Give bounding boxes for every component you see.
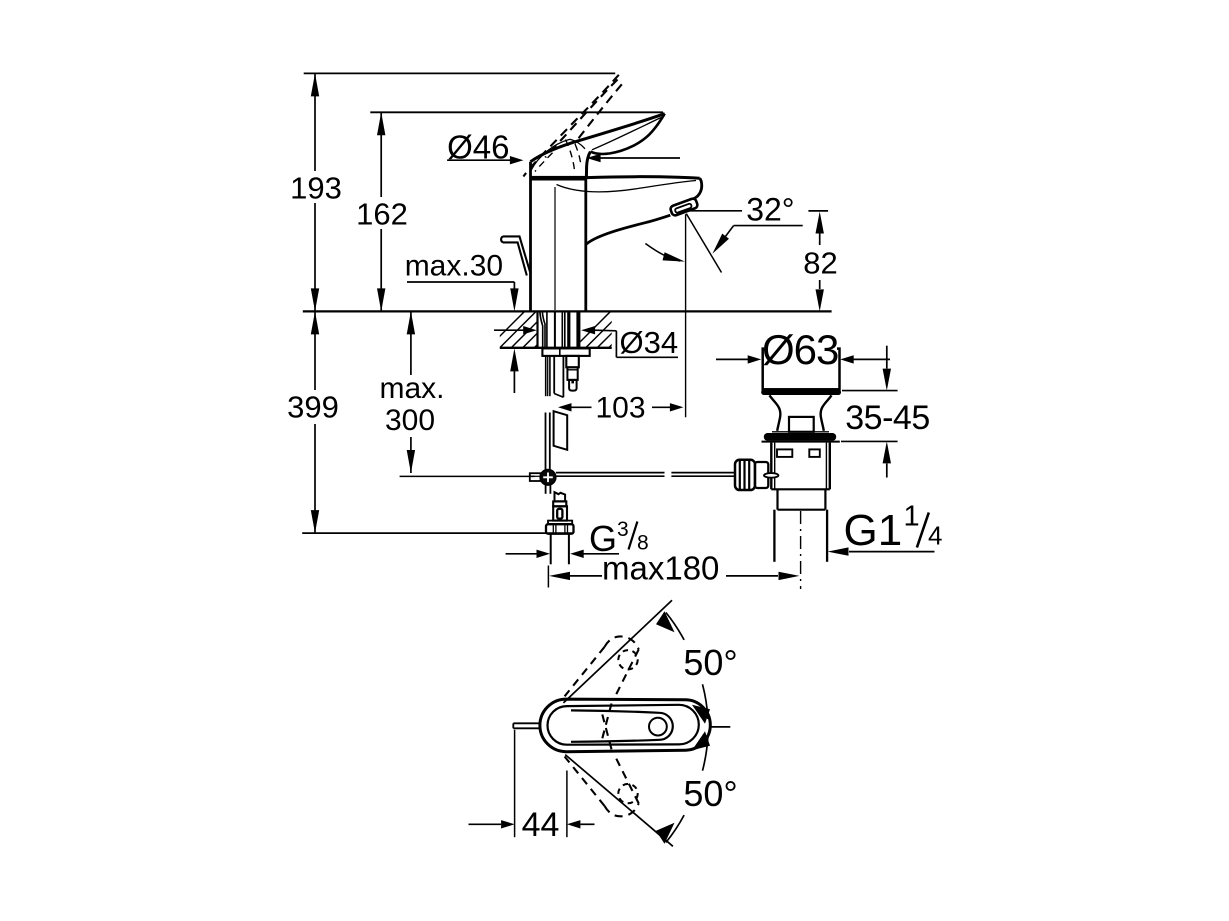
svg-text:399: 399 [287, 390, 339, 425]
drain centerline [800, 511, 802, 589]
drain square boss [789, 417, 814, 432]
lever top edge [531, 114, 665, 162]
svg-text:max.: max. [379, 372, 444, 405]
supply tube lower [545, 413, 547, 470]
mounting hole left edge [536, 311, 538, 347]
svg-text:Ø34: Ø34 [620, 325, 679, 360]
dome arc [531, 139, 570, 170]
drain collar [776, 489, 778, 509]
supply pipe stub [550, 534, 552, 565]
svg-text:50°: 50° [683, 642, 737, 683]
horizontal operating rod [556, 472, 665, 474]
inner capsule [548, 705, 699, 745]
svg-text:32°: 32° [746, 192, 794, 228]
faucet body right edge [584, 177, 587, 311]
svg-text:50°: 50° [683, 773, 737, 814]
junction ball [540, 470, 556, 486]
dim 162 [356, 112, 408, 311]
handle base band [530, 176, 586, 181]
drain flange band [764, 433, 836, 441]
hidden arcs in handle [566, 140, 575, 171]
dashed lever down: cap [605, 803, 639, 816]
dashed lever line 3 [575, 84, 622, 143]
supply strip lower [554, 411, 568, 450]
svg-text:Ø63: Ø63 [762, 326, 838, 373]
supply tube upper [545, 356, 547, 396]
check valve G3/8 [555, 492, 566, 501]
handle top view: outer capsule [540, 699, 710, 752]
dim Ø34 [494, 325, 678, 360]
svg-text:max180: max180 [602, 550, 719, 587]
svg-text:82: 82 [803, 246, 837, 281]
tube below ball [545, 485, 547, 494]
lever inner line [592, 118, 661, 150]
rod stub top view [513, 722, 540, 724]
deck hatching right block [574, 311, 657, 348]
clamp pin [764, 473, 778, 478]
rod clamp [755, 462, 768, 488]
pop-up rod [503, 236, 530, 272]
deck bottom line [500, 347, 612, 349]
dim 399 [287, 311, 339, 533]
drain cap bottom band [761, 389, 841, 395]
dashed lever (raised position) line 1 [523, 75, 618, 177]
svg-text:4: 4 [928, 521, 942, 551]
dim 35-45 [841, 346, 930, 478]
dim 82 [803, 211, 837, 312]
dim max.300 [379, 311, 534, 476]
dim Ø46 [447, 129, 680, 166]
spout inner line [557, 181, 697, 192]
svg-text:103: 103 [595, 391, 645, 424]
lever front face [586, 152, 590, 178]
mounting nut stack [566, 356, 579, 367]
dashed lever down: circle [618, 784, 637, 803]
drain flange bottom line [762, 441, 840, 443]
small inner capsule [571, 710, 673, 741]
dim G1 1/4 [828, 501, 943, 556]
dim max.30 [405, 250, 519, 393]
bottom reference line (399 level) [302, 532, 572, 534]
spout front edge [693, 178, 701, 199]
dim 44 [469, 730, 595, 844]
drain neck right [821, 395, 832, 431]
dashed lever line 2 [545, 80, 617, 158]
drain body [770, 443, 772, 490]
reference tick [710, 726, 731, 728]
svg-text:162: 162 [356, 197, 408, 232]
deck top line [303, 310, 832, 312]
pivot circle [649, 718, 667, 736]
svg-text:44: 44 [522, 806, 560, 844]
washer under deck [542, 348, 589, 356]
body inner highlight line [554, 187, 556, 310]
angle arc lower [666, 815, 684, 842]
drain neck left [770, 395, 781, 431]
drain cap cylinder [763, 349, 840, 390]
svg-text:193: 193 [290, 171, 342, 206]
lever underside [590, 114, 664, 154]
dashed lever up: sides [565, 647, 605, 697]
angle ray upper [563, 600, 672, 703]
spout top edge [587, 177, 700, 179]
svg-text:G1: G1 [844, 506, 903, 555]
dim 32 deg [645, 192, 802, 418]
spout underside [586, 215, 671, 244]
dashed lever up: circle [618, 650, 637, 669]
dim max180 [548, 550, 799, 588]
dim G3/8 [506, 518, 649, 559]
aerator [670, 198, 699, 217]
rod knob [735, 460, 755, 490]
shank tubes in hole [540, 311, 543, 347]
svg-text:1: 1 [904, 501, 920, 533]
supply strip upper [553, 356, 555, 394]
dim 103 [558, 391, 683, 424]
svg-text:3: 3 [617, 518, 629, 541]
angle arc upper [666, 613, 684, 640]
svg-text:300: 300 [385, 404, 435, 437]
faucet body left edge [529, 162, 532, 312]
top reference line (193 level) [304, 72, 616, 74]
angle ray lower [565, 755, 673, 847]
dashed lever down: sides [565, 757, 605, 807]
dashed lever up: cap [605, 636, 639, 649]
junction left stub [530, 473, 541, 481]
reference line (162 level) [370, 111, 663, 113]
svg-text:max.30: max.30 [405, 250, 503, 283]
dim 193 [290, 73, 342, 311]
deck hatching left block [488, 311, 583, 348]
dim Ø63 [716, 326, 890, 373]
drain tailpipe [773, 510, 775, 562]
drain flange thin line [772, 431, 829, 433]
svg-text:35-45: 35-45 [845, 399, 929, 437]
